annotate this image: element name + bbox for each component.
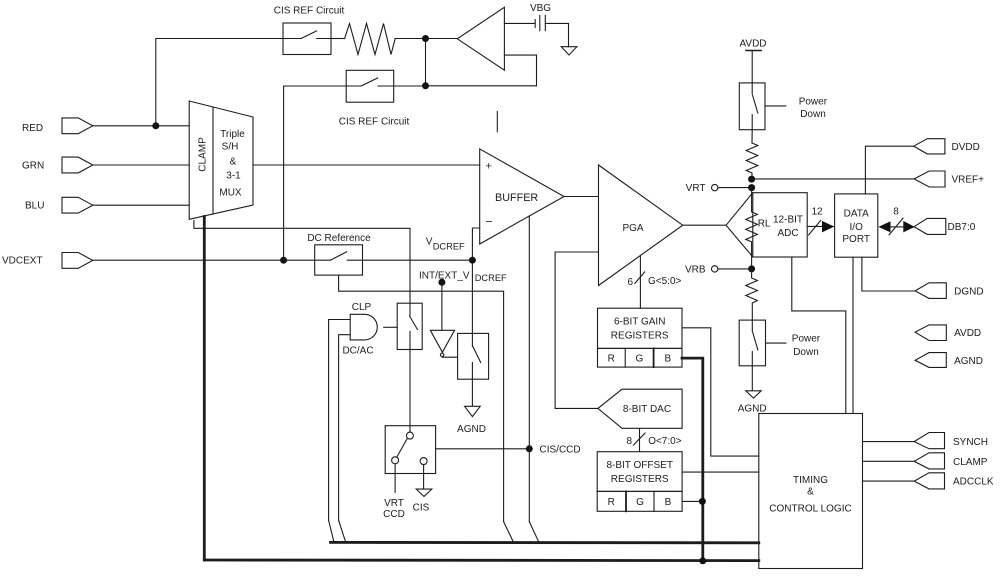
svg-text:DGND: DGND xyxy=(954,287,983,298)
svg-text:6: 6 xyxy=(627,277,633,288)
svg-text:I/O: I/O xyxy=(850,222,864,233)
wire selector VRT CCD leg xyxy=(394,464,396,493)
wire data port to timing xyxy=(852,257,854,413)
block 8-BIT OFFSET REGISTERS xyxy=(597,452,682,492)
svg-text:CLP: CLP xyxy=(352,302,372,313)
svg-text:DVDD: DVDD xyxy=(952,142,980,153)
svg-text:RL: RL xyxy=(758,219,771,230)
pin AGND xyxy=(915,353,983,368)
wire bus1 thick xyxy=(331,541,759,544)
wire selector output to CIS/CCD node xyxy=(436,448,530,450)
wire VDCEXT to DC Reference switch xyxy=(93,259,315,261)
wire buffer output to PGA xyxy=(564,196,599,198)
adc 12-BIT ADC xyxy=(726,193,807,257)
svg-text:DB7:0: DB7:0 xyxy=(948,222,976,233)
svg-text:REGISTERS: REGISTERS xyxy=(611,330,669,341)
node feedback junction xyxy=(422,82,429,89)
block DATA I/O PORT xyxy=(835,194,878,257)
pin DVDD xyxy=(914,139,980,154)
svg-text:12-BIT: 12-BIT xyxy=(773,215,803,226)
battery VBG xyxy=(530,3,551,31)
pin SYNCH xyxy=(914,433,988,449)
wire RED junction up to CIS REF switch A xyxy=(156,39,283,126)
ground CIS xyxy=(413,489,432,513)
wire PGA output to ADC xyxy=(683,224,726,226)
node RED junction xyxy=(152,122,159,129)
svg-text:Down: Down xyxy=(793,347,819,358)
svg-text:ADC: ADC xyxy=(777,228,798,239)
resistor R2 xyxy=(746,143,758,179)
wire DAC output to PGA xyxy=(555,252,598,408)
wire offset B to thick bus xyxy=(682,500,703,502)
wire MUX clamp step to switch S1 xyxy=(194,221,410,304)
svg-text:VRT: VRT xyxy=(686,183,706,194)
switch S2 (VDCREF/AGND) xyxy=(458,333,489,379)
svg-text:R: R xyxy=(608,497,615,508)
svg-text:R: R xyxy=(608,354,615,365)
inverter U3 xyxy=(430,330,454,356)
svg-text:BLU: BLU xyxy=(25,201,44,212)
svg-text:AGND: AGND xyxy=(457,424,486,435)
svg-text:INT/EXT_V: INT/EXT_V xyxy=(419,271,470,282)
svg-text:PGA: PGA xyxy=(622,223,643,234)
terminal VRB xyxy=(685,264,752,275)
node VREF junction xyxy=(748,176,755,183)
wire timing to SYNCH xyxy=(863,441,915,443)
svg-text:Triple: Triple xyxy=(220,129,245,140)
svg-text:DCREF: DCREF xyxy=(475,273,507,283)
label VDCREF xyxy=(426,237,465,252)
op-amp U2 (left pointing) xyxy=(457,7,504,70)
svg-text:DATA: DATA xyxy=(844,208,870,219)
svg-text:CIS: CIS xyxy=(413,503,430,514)
svg-text:PORT: PORT xyxy=(842,234,870,245)
svg-text:CLAMP: CLAMP xyxy=(953,457,988,468)
ground (VBG) xyxy=(561,47,577,55)
wire INT/EXT node to inverter xyxy=(441,282,443,330)
terminal VRT xyxy=(686,183,752,194)
svg-text:CIS REF Circuit: CIS REF Circuit xyxy=(339,117,410,128)
svg-text:B: B xyxy=(664,354,671,365)
wire timing to ADCCLK xyxy=(863,480,915,482)
svg-text:CCD: CCD xyxy=(383,509,405,520)
op-amp PGA xyxy=(599,165,683,286)
wire resistor to op-amp xyxy=(395,38,457,40)
pin GRN xyxy=(22,157,93,173)
svg-text:Down: Down xyxy=(800,109,826,120)
svg-text:TIMING: TIMING xyxy=(793,475,828,486)
svg-text:12: 12 xyxy=(811,206,823,217)
wire offset registers to timing logic xyxy=(682,471,759,473)
switch selector (VRT CCD / CIS) xyxy=(385,426,435,474)
svg-text:G<5:0>: G<5:0> xyxy=(648,276,682,287)
wire diagonal INT/EXT line to bus1 xyxy=(504,522,514,543)
gate CLP (AND) xyxy=(342,302,377,356)
wire switch A to resistor xyxy=(331,38,345,40)
resistor RL xyxy=(746,212,771,269)
svg-text:8: 8 xyxy=(893,206,899,217)
wire diagonal CLP top input to bus1 xyxy=(329,520,334,541)
svg-text:VRT: VRT xyxy=(384,498,404,509)
svg-text:GRN: GRN xyxy=(22,160,44,171)
arrow 12-bus xyxy=(822,221,834,233)
svg-text:DC/AC: DC/AC xyxy=(342,345,373,356)
wire data port to DGND xyxy=(862,257,915,291)
svg-text:AVDD: AVDD xyxy=(954,328,981,339)
ground AGND (power down) xyxy=(738,391,767,415)
svg-text:CONTROL LOGIC: CONTROL LOGIC xyxy=(769,504,851,515)
node op-amp input junction xyxy=(422,35,429,42)
svg-text:G: G xyxy=(636,497,644,508)
svg-text:AVDD: AVDD xyxy=(739,38,766,49)
wire feedback junction vertical xyxy=(425,39,427,86)
switch CIS REF B xyxy=(346,70,394,102)
svg-text:AGND: AGND xyxy=(738,403,767,414)
svg-text:ADCCLK: ADCCLK xyxy=(953,477,994,488)
switch CIS REF A xyxy=(283,23,331,55)
arrow DB bus left xyxy=(878,221,890,232)
wire selector CIS leg xyxy=(423,465,425,490)
switch S1 (CLP) xyxy=(397,303,422,349)
svg-text:6-BIT GAIN: 6-BIT GAIN xyxy=(614,316,666,327)
wire RED to MUX xyxy=(93,125,189,127)
svg-text:8-BIT OFFSET: 8-BIT OFFSET xyxy=(606,460,673,471)
label 8 O<7:0> xyxy=(626,436,681,447)
wire MUX output to buffer + xyxy=(253,164,480,166)
node VDCREF junction xyxy=(469,257,476,264)
label INT/EXT_VDCREF xyxy=(419,271,507,284)
wire VREF+ line xyxy=(752,178,915,180)
wire DAC offset bus xyxy=(639,428,641,451)
block offset R G B cells xyxy=(597,491,682,511)
wire bus2 thick xyxy=(204,559,759,562)
switch Power Down (lower) xyxy=(739,320,821,366)
wire timing to CLAMP xyxy=(863,460,915,462)
wire ADC output bus xyxy=(807,225,834,227)
wire thick gain B to bus2 xyxy=(682,358,703,561)
svg-text:S/H: S/H xyxy=(222,142,239,153)
power AVDD rail xyxy=(739,38,766,83)
svg-text:+: + xyxy=(486,160,492,172)
wire reference ladder rail xyxy=(751,188,753,212)
bus slash G xyxy=(635,272,645,284)
dac 8-BIT DAC xyxy=(598,389,682,428)
svg-text:&: & xyxy=(230,157,237,168)
block gain R G B cells xyxy=(598,348,683,367)
wire BLU to MUX xyxy=(93,204,189,206)
pin DB7:0 xyxy=(914,218,976,234)
mux U1 Triple S/H 3-1 MUX trapezoid xyxy=(189,101,253,219)
wire buffer tap down to bus xyxy=(528,216,530,522)
arrow DB bus right xyxy=(903,221,914,233)
label 6 G<5:0> xyxy=(627,276,681,288)
svg-text:&: & xyxy=(807,487,814,498)
block 6-BIT GAIN REGISTERS xyxy=(598,308,683,348)
wire buffer minus input to VDCREF node xyxy=(472,228,479,333)
svg-text:3-1: 3-1 xyxy=(226,171,241,182)
pin VDCEXT xyxy=(2,253,93,269)
ground AGND (S2) xyxy=(457,406,486,435)
svg-text:DC Reference: DC Reference xyxy=(307,233,371,244)
wire DC Reference to VDCREF node xyxy=(363,259,473,261)
wire op-amp feedback loop xyxy=(426,55,537,86)
svg-text:V: V xyxy=(426,237,433,248)
wire ADC to timing xyxy=(792,257,846,414)
pin BLU xyxy=(25,197,93,213)
svg-text:VREF+: VREF+ xyxy=(952,175,985,186)
block TIMING & CONTROL LOGIC xyxy=(759,414,863,569)
switch Power Down (upper) xyxy=(739,83,827,130)
svg-text:G: G xyxy=(636,354,644,365)
node INT/EXT junction xyxy=(438,279,445,286)
svg-text:BUFFER: BUFFER xyxy=(495,192,538,204)
resistor R1 (CIS REF) xyxy=(345,24,396,55)
bus slash 8 (DB) xyxy=(889,206,903,234)
svg-text:B: B xyxy=(665,497,672,508)
node VRT junction xyxy=(748,184,755,191)
svg-text:8: 8 xyxy=(626,436,632,447)
wire diagonal DC/AC input to bus1 xyxy=(339,520,346,541)
svg-text:Power: Power xyxy=(799,97,828,108)
wire op-amp output to battery xyxy=(504,22,535,24)
node CIS/CCD xyxy=(526,444,581,455)
svg-text:REGISTERS: REGISTERS xyxy=(611,474,669,485)
bus slash O xyxy=(633,433,645,445)
wire S1 to selector switch xyxy=(409,350,411,433)
svg-text:CIS REF Circuit: CIS REF Circuit xyxy=(274,6,345,17)
bus slash 12 xyxy=(809,206,823,235)
wire CLP output to S1 xyxy=(384,326,398,328)
wire DC Reference bottom output xyxy=(339,275,504,521)
svg-text:O<7:0>: O<7:0> xyxy=(648,436,682,447)
wire inverter to switch S2 xyxy=(442,356,457,358)
svg-text:CIS/CCD: CIS/CCD xyxy=(540,444,581,455)
svg-text:AGND: AGND xyxy=(954,356,983,367)
wire DVDD to data port xyxy=(865,146,913,194)
wire CLP bottom input xyxy=(339,335,351,521)
svg-text:8-BIT DAC: 8-BIT DAC xyxy=(623,404,671,415)
wire switch B left down to VDCEXT xyxy=(284,86,347,260)
wire switch B to feedback junction xyxy=(394,85,426,87)
pin VREF+ xyxy=(914,171,984,187)
wire diagonal CIS/CCD line to bus1 xyxy=(529,522,539,543)
wire gain registers to timing logic xyxy=(683,328,759,456)
wire battery to ground xyxy=(545,23,568,46)
label VRT CCD xyxy=(383,498,405,520)
svg-text:VDCEXT: VDCEXT xyxy=(2,256,43,267)
svg-text:RED: RED xyxy=(22,123,43,134)
svg-text:CLAMP: CLAMP xyxy=(198,137,209,172)
node offset B junction xyxy=(699,498,706,505)
svg-text:DCREF: DCREF xyxy=(433,242,465,252)
wire switch to resistor xyxy=(751,130,753,143)
svg-text:SYNCH: SYNCH xyxy=(953,437,988,448)
switch DC Reference xyxy=(307,233,371,275)
resistor R3 xyxy=(746,269,758,320)
pin DGND xyxy=(915,283,983,299)
pin AVDD xyxy=(915,325,981,341)
svg-text:−: − xyxy=(486,214,493,228)
node VRB junction xyxy=(748,265,755,272)
node bus2 junction xyxy=(699,557,706,564)
svg-text:MUX: MUX xyxy=(219,188,242,199)
svg-text:VBG: VBG xyxy=(530,3,551,14)
svg-text:Power: Power xyxy=(792,334,821,345)
wire GRN to MUX xyxy=(93,164,189,166)
node VDCEXT/CISREF2 junction xyxy=(280,257,287,264)
pin RED xyxy=(22,118,93,134)
op-amp BUFFER xyxy=(480,149,564,244)
wire PGA gain bus xyxy=(639,256,641,308)
wire S2 to AGND xyxy=(471,379,473,407)
svg-text:VRB: VRB xyxy=(685,264,706,275)
wire thick clamp bus from MUX bottom xyxy=(203,217,206,561)
wire stub (artifact segment) xyxy=(496,112,498,132)
pin CLAMP xyxy=(914,453,988,469)
pin ADCCLK xyxy=(914,473,994,489)
wire CLP top input xyxy=(329,320,351,521)
wire switch to AGND xyxy=(751,366,753,391)
